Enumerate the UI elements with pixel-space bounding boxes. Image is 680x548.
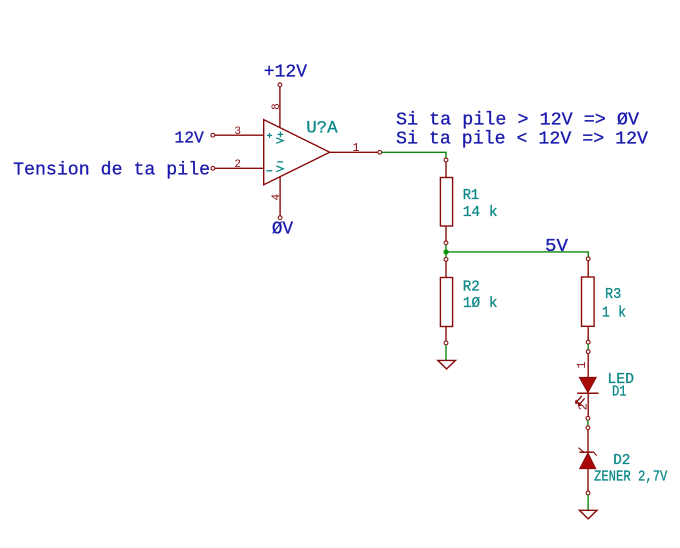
svg-text:1 k: 1 k bbox=[602, 304, 626, 321]
svg-text:Tension de ta pile: Tension de ta pile bbox=[13, 161, 210, 181]
op-amp plus input mark bbox=[267, 133, 272, 138]
svg-text:Si ta pile > 12V => ØV: Si ta pile > 12V => ØV bbox=[396, 111, 639, 131]
resistor R3 bbox=[582, 257, 595, 344]
svg-text:ZENER 2,7V: ZENER 2,7V bbox=[594, 468, 667, 485]
wire R1 to junction bbox=[445, 245, 447, 252]
svg-text:1Ø k: 1Ø k bbox=[463, 295, 498, 312]
ground symbol (R2) bbox=[438, 360, 456, 369]
svg-text:3: 3 bbox=[234, 126, 241, 138]
op-amp minus input mark bbox=[266, 170, 272, 172]
zener diode D2 bbox=[578, 426, 596, 495]
svg-text:2: 2 bbox=[576, 403, 590, 410]
resistor R2 bbox=[440, 258, 452, 345]
svg-text:D2: D2 bbox=[613, 452, 630, 469]
LED emission arrows bbox=[576, 396, 585, 406]
op-amp plus power mark bbox=[276, 132, 283, 144]
junction node bbox=[443, 249, 448, 254]
wire R3 to LED bbox=[587, 344, 589, 350]
ground symbol (D2) bbox=[579, 510, 597, 519]
svg-text:5V: 5V bbox=[545, 237, 568, 257]
op-amp minus power mark bbox=[276, 162, 283, 172]
pin 3 (non-inverting input) bbox=[211, 133, 264, 137]
svg-text:12V: 12V bbox=[174, 130, 204, 149]
resistor R1 bbox=[440, 158, 452, 245]
svg-text:R1: R1 bbox=[463, 187, 480, 204]
svg-text:2: 2 bbox=[234, 159, 241, 171]
pin 8 (V+ supply) bbox=[278, 83, 282, 128]
svg-text:R3: R3 bbox=[605, 286, 621, 303]
svg-text:14 k: 14 k bbox=[463, 204, 498, 221]
LED D1 bbox=[577, 350, 598, 420]
pin 4 (V- supply) bbox=[278, 177, 282, 220]
pin 2 (inverting input) bbox=[211, 166, 264, 170]
svg-text:R2: R2 bbox=[463, 278, 480, 295]
svg-text:1: 1 bbox=[352, 141, 359, 155]
wire output to R1 bbox=[382, 152, 446, 158]
wire junction to R3 branch (5V net) bbox=[446, 252, 588, 257]
op-amp U?A body bbox=[264, 120, 330, 185]
svg-text:D1: D1 bbox=[612, 384, 627, 401]
svg-text:+12V: +12V bbox=[264, 62, 307, 82]
svg-text:4: 4 bbox=[271, 194, 283, 201]
svg-text:ØV: ØV bbox=[272, 220, 293, 240]
pin 1 (output) bbox=[330, 150, 382, 154]
wire R2 to ground bbox=[445, 345, 447, 361]
svg-text:Si ta pile < 12V => 12V: Si ta pile < 12V => 12V bbox=[396, 129, 648, 149]
svg-text:U?A: U?A bbox=[306, 118, 338, 138]
wire D2 to ground bbox=[587, 495, 589, 510]
svg-text:1: 1 bbox=[575, 361, 589, 368]
svg-text:8: 8 bbox=[271, 103, 283, 110]
wire junction to R2 bbox=[445, 252, 447, 258]
wire LED to D2 bbox=[587, 420, 589, 426]
